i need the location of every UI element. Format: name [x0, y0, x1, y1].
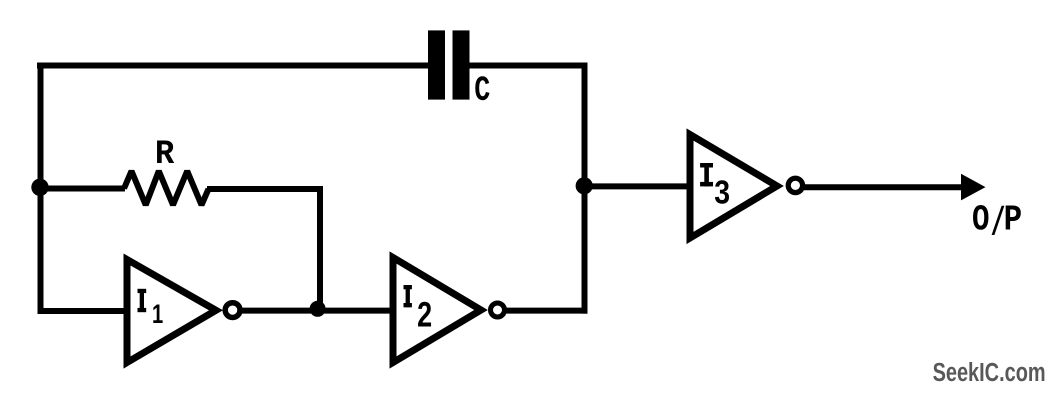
wire: node to I3 input: [584, 183, 693, 189]
node: junction dot between I1 and I2: [310, 301, 326, 317]
I2 output bubble: [491, 303, 505, 317]
inverter I2 (triangle): [393, 258, 481, 363]
wire: I1 output to I2 input: [241, 308, 396, 314]
wire: resistor to corner, down to lower rail junction: [207, 189, 320, 306]
node: right junction dot: [576, 177, 593, 194]
svg-text:P: P: [1004, 200, 1023, 241]
svg-text:O: O: [972, 199, 990, 240]
svg-text:SeekIC.com: SeekIC.com: [933, 359, 1046, 387]
I3 output bubble: [788, 178, 802, 192]
capacitor C (plates): [428, 30, 470, 99]
inverter I3 (triangle): [690, 135, 777, 239]
wire: top rail left segment (feedback loop top): [37, 63, 429, 69]
svg-text:3: 3: [714, 173, 730, 210]
label I2 (serifed I drawn as rects + subscript 2): [404, 285, 433, 334]
arrowhead: [961, 174, 986, 201]
svg-text:R: R: [155, 136, 175, 174]
wire: mid rail from node to resistor: [40, 186, 125, 192]
wire: right vertical: [582, 63, 588, 314]
wire: bottom rail left segment: [38, 308, 132, 314]
label I3 (serifed I drawn as rects + subscript 3): [700, 163, 730, 210]
node: left junction dot: [31, 179, 48, 196]
I1 output bubble: [225, 303, 240, 318]
label I1 (serifed I drawn as rects + subscript 1): [138, 289, 164, 329]
svg-text:1: 1: [152, 299, 163, 329]
svg-text:C: C: [474, 71, 490, 111]
inverter I1 (triangle): [127, 260, 216, 363]
wire: left vertical: [38, 63, 44, 312]
wire: output wire: [804, 184, 964, 190]
wire: I2 output to right vertical: [505, 308, 588, 314]
resistor R (zigzag): [124, 171, 209, 205]
svg-text:2: 2: [417, 295, 432, 334]
wire: top rail right segment: [469, 63, 588, 69]
